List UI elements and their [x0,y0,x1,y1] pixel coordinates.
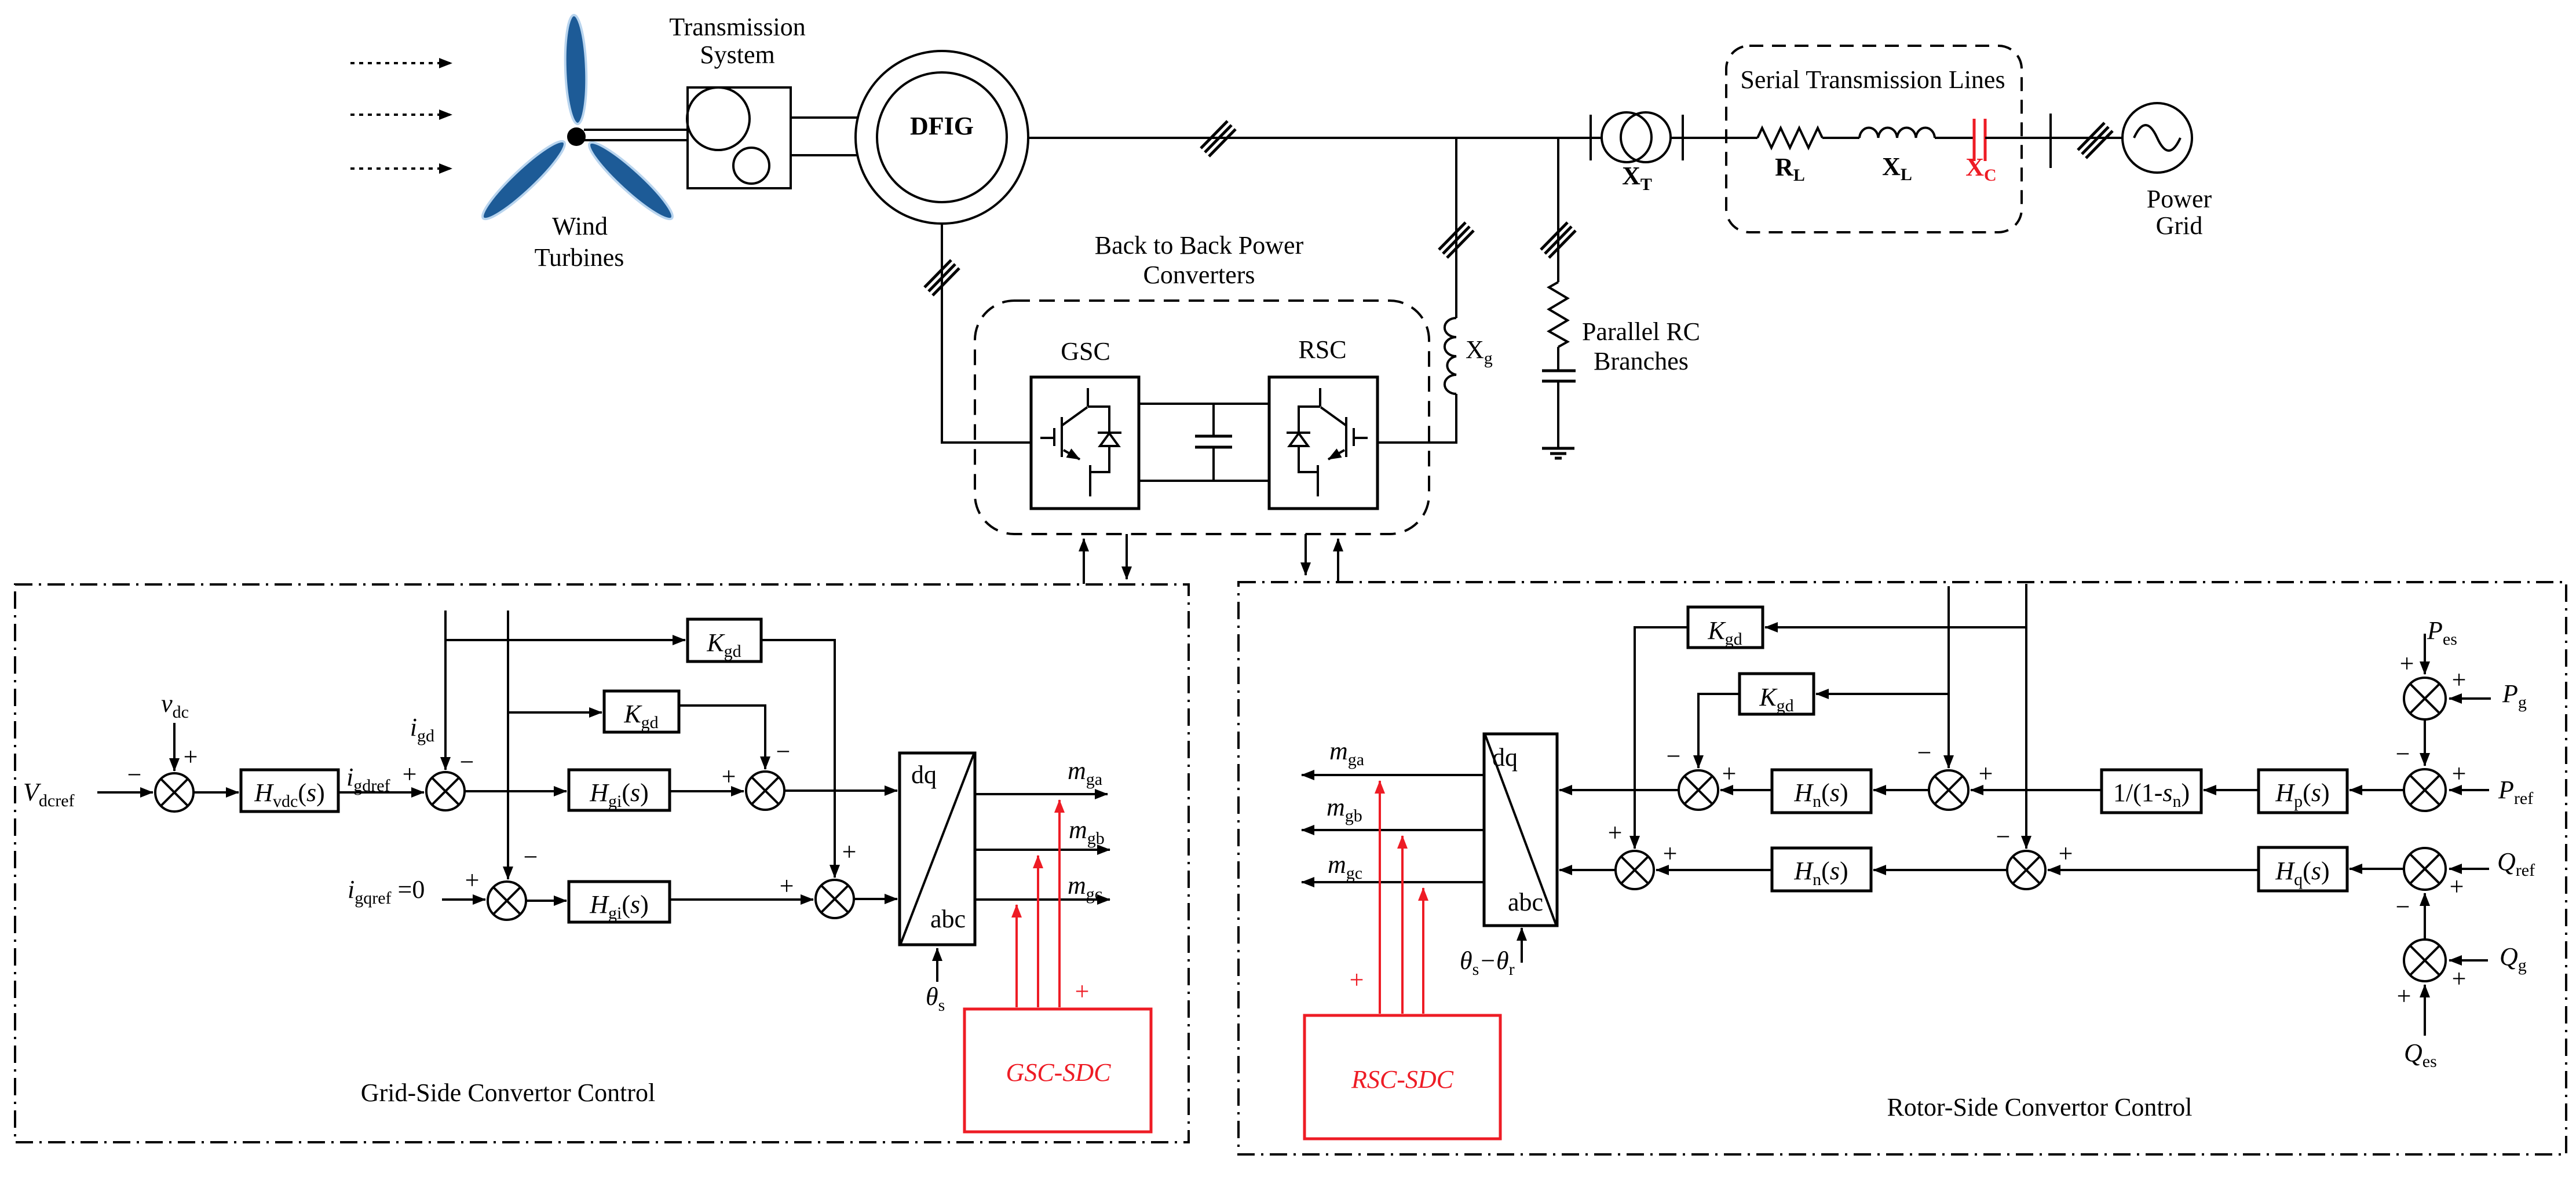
svg-text:System: System [700,41,775,69]
hash mark DFIG drop wire [925,260,959,295]
svg-text:Back to Back Power: Back to Back Power [1095,231,1304,259]
wind turbine blade lower-right [583,136,679,226]
svg-text:−: − [1917,739,1932,767]
dq abc transform block RSC [1484,734,1557,926]
svg-text:Transmission: Transmission [669,13,806,41]
control arrow GSC down [1126,534,1128,579]
wire DFIG stator drop to GSC [942,224,1031,443]
bus bar left of XT [1590,115,1592,160]
wire sum1 to Hvdc [193,791,239,794]
wind turbine blade lower-left [476,134,571,226]
svg-text:Wind: Wind [552,212,608,240]
wire output mgb RSC [1302,829,1484,831]
svg-text:−: − [1667,742,1681,770]
svg-text:−: − [776,737,791,766]
svg-text:Hq(s): Hq(s) [2275,857,2329,889]
hash mark RC branch [1541,222,1576,258]
wire Kgd1R to sumA [1635,627,1688,849]
block Hn1 [1772,770,1871,813]
grid-side control dash-dot box [15,584,1189,1142]
svg-text:Hp(s): Hp(s) [2275,778,2329,811]
wire slip block to sumC [1971,789,2102,791]
svg-text:GSC-SDC: GSC-SDC [1006,1058,1112,1087]
wire igq vertical into sum3 [507,611,509,879]
wire Hgi1 to sum5 [670,790,744,792]
control arrow GSC up [1083,539,1085,584]
svg-text:−: − [460,748,474,776]
wire sum5 to dq box [784,789,897,792]
transistor RSC IGBT emitter arrow [1328,450,1344,459]
wire Kgd1 to sum4 [761,640,835,878]
gain block Kgd1 RSC [1688,607,1763,648]
svg-text:Grid: Grid [2156,211,2203,240]
diode GSC triangle [1100,433,1119,446]
wire shaft gearbox to DFIG [791,118,858,155]
svg-text:dq: dq [1492,743,1518,772]
wire Qg into sumQ2 [2449,959,2488,962]
wire output mgc [975,898,1110,901]
wire Pref into sum2P [2449,789,2489,791]
serial transmission lines dashed box [1726,46,2022,232]
wire Hgi2 to sum4 [670,898,813,901]
capacitor XC series red [1974,119,1985,161]
wire sumA to dq RSC [1559,869,1616,871]
svg-text:+: + [1075,977,1090,1006]
wire Pes into sum1P [2424,634,2426,674]
wire vertical v1 into sumC [1947,586,1950,768]
svg-text:+: + [1979,759,1993,788]
wire Kgd2R to sumB [1698,694,1740,768]
svg-text:+: + [1722,759,1737,788]
gain block Kgd1 [688,619,761,661]
block Hvdc(s) [241,770,338,812]
svg-text:+: + [2450,872,2464,901]
capacitor DC link leads [1212,404,1215,481]
summing junction sumQ2 [2404,940,2446,981]
red injection arrow to mgb [1037,856,1039,1007]
wire XT to RL [1683,137,1757,139]
svg-text:+: + [403,760,417,788]
wire shaft hub to gearbox [584,130,688,140]
svg-text:+: + [842,838,857,866]
wire Hp to slip block [2204,789,2259,791]
wind turbine blade top [564,14,589,124]
transistor GSC IGBT gate [1040,417,1062,457]
svg-text:+: + [2452,964,2467,993]
wire sum2 to Hgi1 [465,790,567,792]
wire DC bus top [1139,403,1269,405]
svg-text:abc: abc [930,905,966,933]
wire sumQ1 to Hq [2350,868,2404,870]
wire Hn1 to sumB [1720,789,1772,791]
svg-text:+: + [2452,666,2467,694]
svg-text:+: + [1608,818,1623,847]
wire theta-s into abc [936,948,938,982]
summing junction sumD [2007,851,2045,889]
inductor XL [1859,127,1935,138]
wire XL to XC [1935,137,1974,139]
summing junction sum2P [2404,769,2446,811]
block GSC-SDC red [964,1009,1151,1132]
wire theta into abc RSC [1521,928,1523,963]
diode RSC wires [1287,407,1320,472]
summing junction sumQ1 [2404,848,2446,890]
power grid sine wave [2134,125,2180,151]
summing junction sumC [1929,770,1968,810]
wire vertical v2 into sumD [2025,584,2027,849]
wire Hn2 to sumA [1656,869,1772,871]
wire main bus DFIG to transformer [1028,137,1683,139]
svg-text:Parallel RC: Parallel RC [1582,317,1700,346]
wind arrow 3 [350,167,452,170]
diode RSC triangle [1289,433,1308,446]
wire RL to XL [1822,137,1859,139]
diode GSC wires [1088,407,1121,472]
svg-text:Power: Power [2147,185,2212,213]
gearbox gear large [687,87,750,150]
svg-text:−: − [127,761,142,789]
wire sum3 to Hgi2 [526,900,567,902]
svg-text:RSC-SDC: RSC-SDC [1351,1065,1454,1094]
wire resistor to capacitor [1557,347,1559,371]
svg-text:−: − [524,843,538,871]
capacitor DC link plates [1195,436,1232,447]
wire Qes into sumQ2 [2424,985,2426,1036]
summing junction sumA [1616,851,1654,889]
wire Xg to RSC [1377,394,1456,443]
svg-text:+: + [1350,966,1364,994]
wind turbine hub [567,127,586,146]
wire output mga [975,793,1108,795]
transistor GSC IGBT collector [1062,388,1088,425]
block Hq(s) [2259,847,2347,891]
summing junction sumB [1679,770,1718,810]
gain block Kgd2 [604,691,679,732]
svg-text:Hn(s): Hn(s) [1793,857,1848,889]
hash mark grid side [2078,123,2113,158]
wire sumC to Hn1 [1873,789,1929,791]
red injection arrow to mgb RSC [1401,836,1404,1014]
wire vdc to sum1 [173,723,176,771]
svg-text:abc: abc [1508,888,1543,916]
power grid source [2122,103,2192,173]
svg-text:Serial Transmission Lines: Serial Transmission Lines [1740,65,2005,94]
wire output mgc RSC [1302,881,1484,883]
red injection arrow to mga RSC [1379,781,1381,1014]
wire DC bus bottom [1139,480,1269,482]
svg-text:Branches: Branches [1594,347,1689,375]
hash mark main bus [1201,121,1236,156]
summing junction sum3 [488,882,526,920]
block Hgi2 [569,882,670,922]
control arrow RSC up [1337,539,1339,582]
svg-text:−: − [2396,740,2410,768]
block Hn2 [1772,848,1871,891]
wire feed to Kgd2 RSC [1816,693,1949,695]
block 1/(1-sn) [2102,770,2201,813]
summing junction sum5 [746,772,784,810]
wire sum2P to Hp [2350,789,2404,791]
transistor GSC IGBT emitter lead [1089,465,1091,496]
node junction Xg branch [1455,138,1457,318]
control arrow RSC down [1305,534,1307,575]
resistor RL [1757,128,1822,148]
red injection arrow to mga [1058,800,1061,1007]
wire sumD to Hn2 [1873,869,2007,871]
rotor-side control dash-dot box [1238,582,2566,1154]
capacitor parallel RC branch [1542,371,1576,381]
converter GSC box [1031,377,1139,509]
summing junction sum1P [2404,678,2446,719]
svg-text:+: + [2400,649,2414,678]
ground [1542,448,1574,458]
svg-text:θs−θr: θs−θr [1460,946,1515,979]
wire Hvdc to sum2 [338,791,424,794]
wire sum1P to sum2P [2424,719,2426,766]
svg-text:Turbines: Turbines [535,243,624,272]
wire Qref into sumQ1 [2449,868,2489,870]
bus bar right of serial box [2049,114,2052,168]
wire sumB to dq RSC [1559,789,1679,791]
wind arrow 1 [350,62,452,64]
hash mark Xg branch [1439,222,1474,258]
svg-text:Converters: Converters [1143,261,1255,289]
block Hgi1 [569,770,670,810]
red injection arrow to mgc RSC [1422,888,1424,1014]
back to back converters dashed box [975,301,1429,534]
svg-text:DFIG: DFIG [910,112,974,140]
gearbox gear small [733,148,769,184]
svg-text:Rotor-Side Convertor Control: Rotor-Side Convertor Control [1887,1093,2192,1121]
svg-text:+: + [722,762,736,791]
wire output mga RSC [1302,774,1484,776]
gearbox transmission system box [688,87,791,188]
wire output mgb [975,849,1110,851]
DFIG generator [856,51,1028,224]
summing junction sum1 [155,773,193,812]
converter RSC box [1269,377,1377,509]
node junction RC branch [1557,138,1559,282]
wire Kgd2 to sum5 [679,706,765,769]
wire igd vertical into sum2 [444,611,447,770]
svg-text:+: + [2452,759,2467,788]
svg-text:Hn(s): Hn(s) [1793,778,1848,811]
wire Hq to sumD [2048,869,2259,871]
transistor RSC IGBT collector [1320,388,1346,425]
wire Pg into sum1P [2449,697,2491,700]
red injection arrow to mgc [1015,905,1018,1007]
dq abc transform block GSC [900,753,975,945]
svg-text:+: + [465,866,480,894]
svg-text:+: + [780,872,794,900]
wind arrow 2 [350,114,452,116]
svg-text:GSC: GSC [1061,337,1110,365]
svg-text:+: + [2059,839,2073,868]
transistor RSC IGBT gate [1346,417,1368,457]
wire feed to Kgd1 RSC [1765,626,2026,628]
summing junction sum4 [816,880,854,918]
summing junction sum2 [426,772,465,810]
svg-text:+: + [1663,839,1678,868]
svg-text:+: + [2397,982,2411,1010]
inductor Xg [1445,318,1456,394]
wire sumQ2 to sumQ1 [2424,893,2426,940]
wire igd branch to Kgd1 [445,639,685,641]
svg-text:+: + [184,743,198,771]
svg-text:dq: dq [911,761,937,789]
resistor parallel RC branch [1549,282,1567,347]
svg-text:−: − [1996,823,2011,851]
transistor RSC IGBT emitter lead [1317,465,1319,496]
svg-text:−: − [2396,893,2410,921]
wire XC to power grid [1985,137,2122,139]
block Hp(s) [2259,770,2347,813]
svg-text:RSC: RSC [1298,335,1346,364]
wire sum4 to dq box [854,898,897,900]
wire igq branch to Kgd2 [508,711,602,714]
block RSC-SDC red [1305,1015,1500,1139]
bus bar right of XT [1682,115,1684,160]
transistor GSC IGBT emitter arrow [1064,450,1080,459]
wire Vdcref to sum1 [97,791,153,794]
transformer XT [1602,112,1671,162]
wire capacitor to ground [1557,381,1559,448]
gain block Kgd2 RSC [1740,674,1814,714]
svg-text:Grid-Side Convertor Control: Grid-Side Convertor Control [361,1079,655,1107]
wire igqref to sum3 [442,898,485,901]
